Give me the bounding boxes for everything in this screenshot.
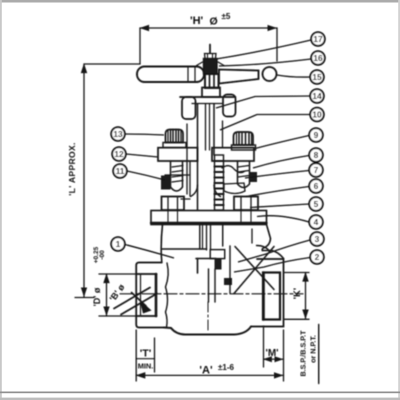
svg-text:'M': 'M'	[265, 348, 278, 359]
svg-text:B.S.P./B.S.P.T: B.S.P./B.S.P.T	[299, 330, 308, 377]
svg-text:14: 14	[312, 91, 322, 101]
svg-text:9: 9	[314, 130, 319, 140]
svg-text:'K': 'K'	[292, 288, 303, 299]
svg-text:or N.P.T.: or N.P.T.	[309, 335, 318, 363]
svg-text:10: 10	[312, 110, 322, 120]
svg-text:3: 3	[315, 234, 320, 244]
svg-text:'H': 'H'	[190, 15, 204, 27]
svg-text:1: 1	[116, 239, 121, 249]
svg-text:12: 12	[114, 149, 124, 159]
svg-text:MIN.: MIN.	[138, 362, 154, 371]
svg-text:8: 8	[314, 150, 319, 160]
svg-text:4: 4	[314, 217, 319, 227]
svg-text:15: 15	[312, 72, 322, 82]
svg-text:Ø: Ø	[210, 16, 218, 28]
svg-text:'D' ø: 'D' ø	[92, 287, 102, 306]
svg-text:13: 13	[113, 129, 123, 139]
svg-text:'T': 'T'	[140, 348, 151, 360]
svg-text:'L' APPROX.: 'L' APPROX.	[67, 142, 77, 195]
svg-text:11: 11	[116, 166, 125, 176]
svg-text:17: 17	[313, 34, 323, 44]
svg-text:'A': 'A'	[199, 365, 213, 377]
svg-text:'B' ø: 'B' ø	[108, 282, 127, 303]
svg-text:±5: ±5	[222, 12, 231, 21]
svg-text:2: 2	[315, 252, 320, 262]
svg-text:5: 5	[314, 199, 319, 209]
svg-text:±1-6: ±1-6	[218, 363, 235, 372]
svg-text:-00: -00	[99, 250, 106, 260]
svg-text:7: 7	[314, 165, 319, 175]
svg-text:6: 6	[314, 181, 319, 191]
svg-text:16: 16	[313, 53, 323, 63]
